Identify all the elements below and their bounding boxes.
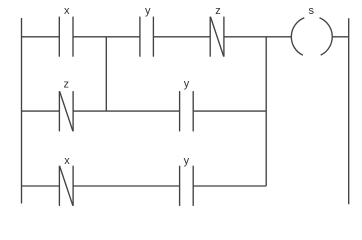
svg-text:s: s xyxy=(308,5,314,17)
svg-text:x: x xyxy=(64,155,70,167)
svg-text:x: x xyxy=(64,5,70,17)
svg-text:y: y xyxy=(184,78,190,90)
svg-text:y: y xyxy=(184,155,190,167)
svg-text:z: z xyxy=(64,78,70,90)
svg-text:z: z xyxy=(215,5,221,17)
svg-text:y: y xyxy=(145,5,151,17)
